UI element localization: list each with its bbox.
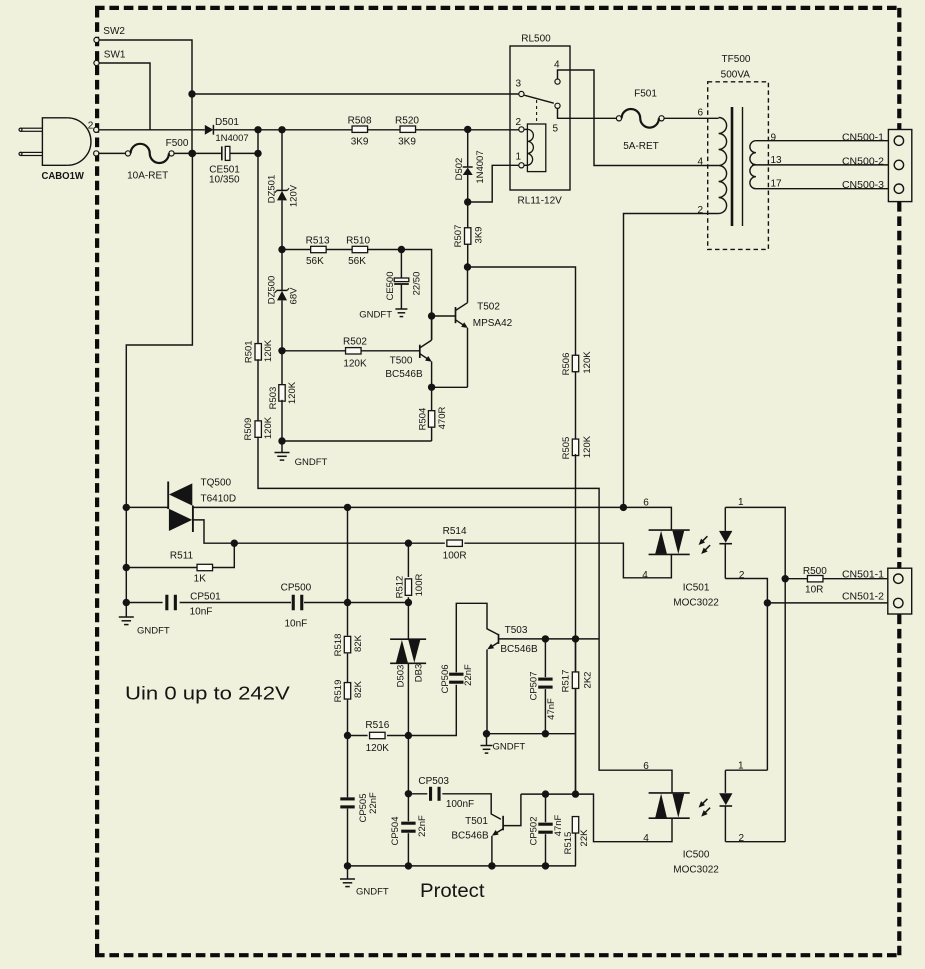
svg-text:T501: T501 xyxy=(465,816,488,827)
svg-text:10A-RET: 10A-RET xyxy=(127,171,168,182)
svg-text:2: 2 xyxy=(739,570,745,581)
svg-text:3K9: 3K9 xyxy=(351,137,369,148)
svg-text:5A-RET: 5A-RET xyxy=(623,141,659,152)
svg-text:TF500: TF500 xyxy=(722,54,751,65)
svg-text:T500: T500 xyxy=(390,356,413,367)
svg-text:R509: R509 xyxy=(243,418,254,441)
svg-text:22/50: 22/50 xyxy=(411,272,422,296)
svg-text:2: 2 xyxy=(697,205,703,216)
svg-text:CN501-2: CN501-2 xyxy=(842,591,884,603)
svg-text:MPSA42: MPSA42 xyxy=(473,318,513,329)
svg-text:22K: 22K xyxy=(579,829,590,847)
svg-text:47nF: 47nF xyxy=(546,698,557,720)
svg-text:CP503: CP503 xyxy=(418,776,449,787)
svg-text:6: 6 xyxy=(643,761,649,772)
svg-text:GNDFT: GNDFT xyxy=(359,310,392,321)
svg-text:R513: R513 xyxy=(306,236,330,247)
svg-text:CN500-2: CN500-2 xyxy=(842,155,884,167)
svg-text:DB3: DB3 xyxy=(413,664,424,682)
svg-text:120K: 120K xyxy=(263,416,274,439)
svg-text:RL11-12V: RL11-12V xyxy=(518,196,563,207)
svg-text:R510: R510 xyxy=(346,236,370,247)
svg-text:R507: R507 xyxy=(453,225,464,248)
svg-text:RL500: RL500 xyxy=(521,34,551,45)
svg-text:R511: R511 xyxy=(170,551,194,562)
svg-text:MOC3022: MOC3022 xyxy=(673,865,719,876)
svg-text:1N4007: 1N4007 xyxy=(215,133,248,144)
svg-text:4: 4 xyxy=(643,833,649,844)
svg-text:GNDFT: GNDFT xyxy=(493,742,526,753)
svg-text:CP502: CP502 xyxy=(528,816,539,845)
svg-text:R517: R517 xyxy=(561,670,572,693)
svg-text:CABO1W: CABO1W xyxy=(41,170,84,182)
svg-text:CP507: CP507 xyxy=(528,671,539,700)
svg-text:IC501: IC501 xyxy=(683,583,710,594)
svg-text:SW2: SW2 xyxy=(103,26,125,37)
svg-text:17: 17 xyxy=(771,179,783,190)
svg-text:CE500: CE500 xyxy=(385,271,396,300)
svg-text:22nF: 22nF xyxy=(417,815,428,837)
svg-text:DZ501: DZ501 xyxy=(266,175,277,204)
svg-text:10nF: 10nF xyxy=(190,607,213,618)
svg-text:82K: 82K xyxy=(353,680,364,698)
svg-text:T502: T502 xyxy=(477,302,500,313)
svg-text:R502: R502 xyxy=(343,337,367,348)
svg-text:R506: R506 xyxy=(561,353,572,376)
svg-text:R518: R518 xyxy=(333,634,344,657)
svg-text:R512: R512 xyxy=(394,576,405,599)
svg-text:T6410D: T6410D xyxy=(201,494,237,505)
svg-text:R501: R501 xyxy=(244,340,255,363)
svg-text:Protect: Protect xyxy=(420,881,485,902)
svg-text:6: 6 xyxy=(697,108,703,119)
svg-text:100R: 100R xyxy=(443,551,467,562)
svg-text:GNDFT: GNDFT xyxy=(137,626,170,637)
svg-text:22nF: 22nF xyxy=(463,664,474,686)
svg-text:Uin 0 up to 242V: Uin 0 up to 242V xyxy=(125,684,290,704)
svg-text:120K: 120K xyxy=(582,351,593,374)
svg-text:R505: R505 xyxy=(561,437,572,460)
svg-text:120K: 120K xyxy=(263,339,274,362)
svg-text:GNDFT: GNDFT xyxy=(356,887,389,898)
svg-text:D502: D502 xyxy=(454,158,465,181)
svg-text:4: 4 xyxy=(697,157,703,168)
svg-text:CN501-1: CN501-1 xyxy=(842,568,884,580)
svg-text:3: 3 xyxy=(515,79,521,90)
svg-text:56K: 56K xyxy=(306,256,324,267)
svg-text:10/350: 10/350 xyxy=(209,175,240,186)
svg-text:3K9: 3K9 xyxy=(398,137,416,148)
svg-text:10nF: 10nF xyxy=(285,619,308,630)
svg-text:CP506: CP506 xyxy=(440,664,451,693)
svg-text:120K: 120K xyxy=(582,435,593,458)
svg-text:TQ500: TQ500 xyxy=(201,478,232,489)
svg-text:6: 6 xyxy=(643,498,649,509)
svg-text:1: 1 xyxy=(515,152,521,163)
svg-text:1K: 1K xyxy=(194,574,207,585)
svg-text:13: 13 xyxy=(771,155,783,166)
svg-text:100nF: 100nF xyxy=(446,799,474,810)
svg-text:4: 4 xyxy=(554,60,560,71)
svg-text:MOC3022: MOC3022 xyxy=(673,598,719,609)
svg-text:R519: R519 xyxy=(333,680,344,703)
svg-text:4: 4 xyxy=(642,570,648,581)
svg-text:R514: R514 xyxy=(443,526,467,537)
svg-text:3K9: 3K9 xyxy=(473,227,484,244)
svg-text:5: 5 xyxy=(553,124,559,135)
svg-text:22nF: 22nF xyxy=(368,792,379,814)
svg-text:CN500-3: CN500-3 xyxy=(842,179,884,191)
svg-text:IC500: IC500 xyxy=(683,850,710,861)
svg-text:120K: 120K xyxy=(287,381,298,404)
svg-text:R515: R515 xyxy=(563,832,574,855)
svg-text:1N4007: 1N4007 xyxy=(475,150,486,183)
svg-text:SW1: SW1 xyxy=(104,50,126,61)
svg-text:120K: 120K xyxy=(366,743,390,754)
svg-text:2K2: 2K2 xyxy=(582,672,593,689)
svg-text:DZ500: DZ500 xyxy=(266,276,277,305)
svg-text:1: 1 xyxy=(738,497,744,508)
svg-text:F501: F501 xyxy=(634,89,657,100)
svg-text:R500: R500 xyxy=(803,566,827,577)
svg-text:CP504: CP504 xyxy=(390,816,401,845)
svg-text:CP501: CP501 xyxy=(190,592,221,603)
svg-text:2: 2 xyxy=(88,120,94,131)
svg-text:9: 9 xyxy=(771,133,777,144)
svg-text:D503: D503 xyxy=(395,665,406,688)
svg-text:470R: 470R xyxy=(437,407,448,430)
svg-text:120V: 120V xyxy=(288,184,299,207)
svg-text:120K: 120K xyxy=(343,359,367,370)
svg-text:GNDFT: GNDFT xyxy=(295,457,328,468)
svg-text:R504: R504 xyxy=(417,408,428,431)
svg-text:D501: D501 xyxy=(215,117,239,128)
svg-text:R508: R508 xyxy=(348,116,372,127)
svg-text:R503: R503 xyxy=(268,387,279,410)
svg-text:R520: R520 xyxy=(395,116,419,127)
svg-text:F500: F500 xyxy=(166,138,189,149)
svg-text:100R: 100R xyxy=(414,574,425,597)
svg-text:500VA: 500VA xyxy=(721,70,751,81)
svg-text:10R: 10R xyxy=(805,585,823,596)
svg-text:BC546B: BC546B xyxy=(385,369,423,380)
svg-text:2: 2 xyxy=(515,117,521,128)
svg-text:CP500: CP500 xyxy=(281,583,312,594)
svg-text:R516: R516 xyxy=(365,720,389,731)
svg-text:BC546B: BC546B xyxy=(451,831,489,842)
svg-text:68V: 68V xyxy=(288,287,299,305)
svg-text:82K: 82K xyxy=(353,634,364,652)
svg-text:T503: T503 xyxy=(505,625,528,636)
svg-text:CN500-1: CN500-1 xyxy=(842,131,884,143)
svg-text:BC546B: BC546B xyxy=(500,644,538,655)
svg-text:56K: 56K xyxy=(348,256,366,267)
